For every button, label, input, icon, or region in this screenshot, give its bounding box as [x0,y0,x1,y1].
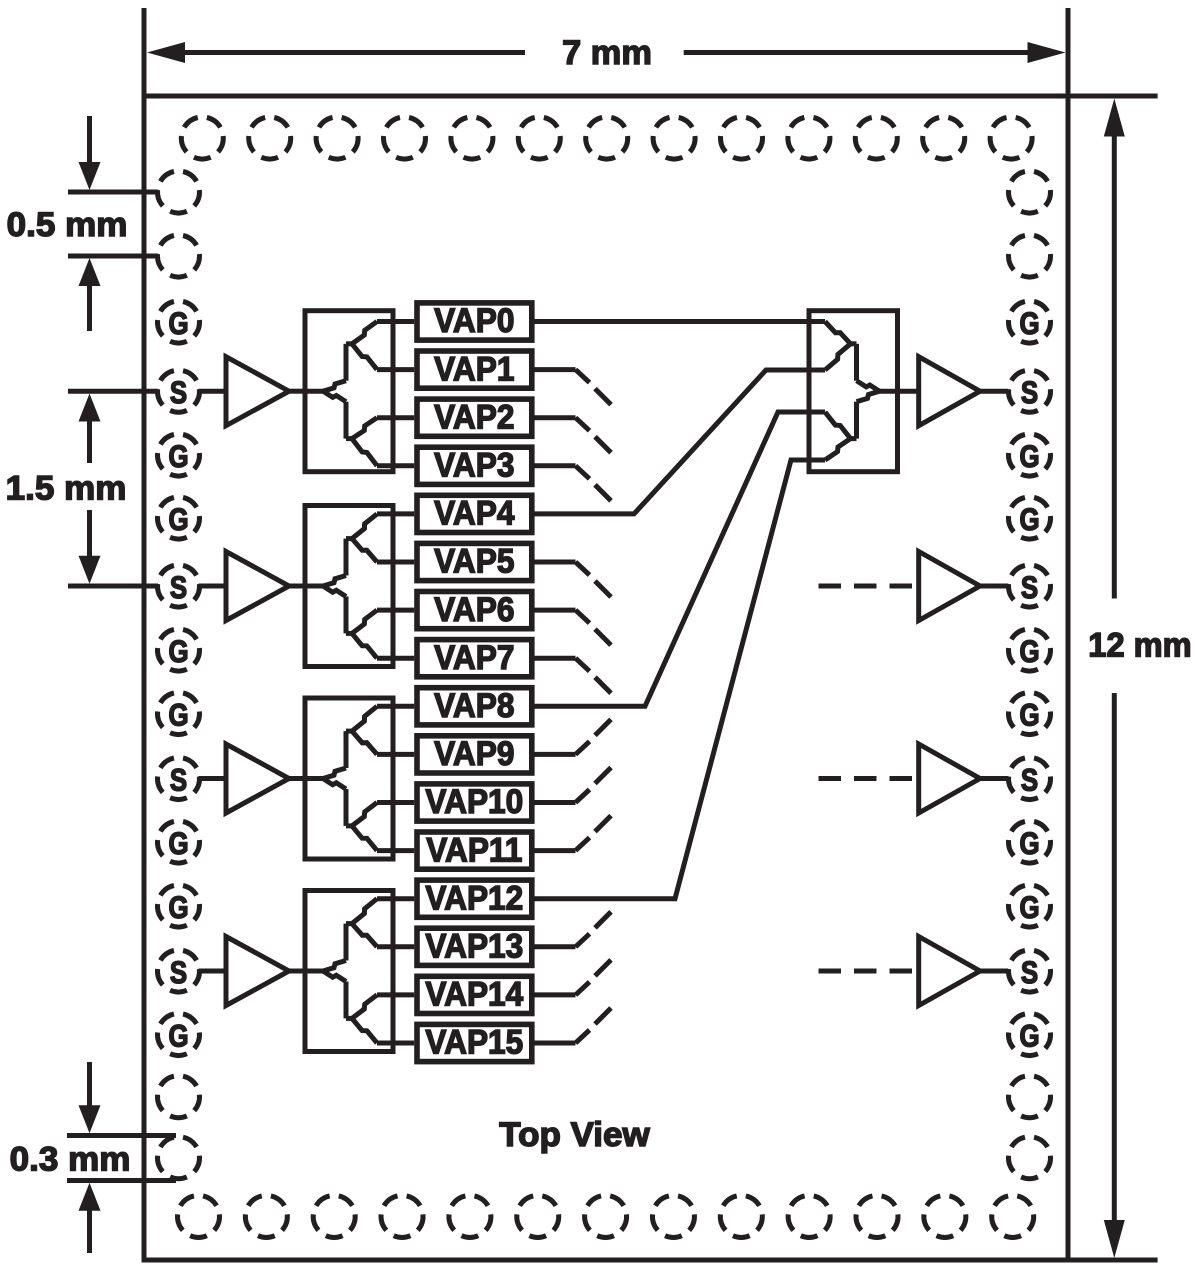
dashed input wire right amp 4 [819,969,919,974]
pad right column 15 [1009,1076,1051,1118]
wire amp A1 to splitter [289,389,305,394]
pad S left column 4 [158,371,200,413]
pad bottom row 10 [788,1196,830,1238]
wire S3 pad to amp [199,776,227,781]
pad G right column 8 [1009,630,1051,672]
VAP2 attenuator box [417,397,532,436]
dashed input wire right amp 3 [819,776,919,781]
switch stub VAP13 (open output) [535,912,612,947]
0.3mm tick lower [67,1178,176,1183]
pad S right column 10 [1009,758,1051,800]
svg-text:VAP3: VAP3 [434,445,514,483]
VAP11 attenuator box [417,830,532,869]
pad bottom row 4 [381,1196,423,1238]
svg-text:VAP15: VAP15 [425,1023,523,1061]
switch stub VAP2 (open output) [535,418,612,453]
label Top View [499,1116,650,1153]
pad top row 1 [181,118,223,160]
pad G left column 14 [158,1014,200,1056]
pad bottom row 8 [652,1196,694,1238]
switch stub VAP14 (open output) [535,960,612,995]
switch stub VAP15 (open output) [535,1008,612,1043]
extension line bottom (for 12mm dim) [1068,1258,1158,1263]
0.3mm arrow lower [87,1208,92,1253]
extension line left (top-left corner, for 7mm dim) [142,8,147,96]
svg-text:VAP7: VAP7 [434,638,514,676]
svg-text:G: G [1019,1019,1039,1054]
pad top row 3 [316,118,358,160]
combiner 4:1 block [809,311,898,472]
pad G left column 11 [158,822,200,864]
splitter 1:4 block 1 [305,311,414,472]
label 12 mm [1088,627,1191,665]
wire VAP12 to combiner input 4 [535,460,826,899]
0.3mm tick upper [67,1133,176,1138]
label 7 mm [562,34,652,72]
svg-text:G: G [168,826,188,861]
svg-text:VAP6: VAP6 [434,590,514,628]
amplifier left A1 [226,357,289,426]
pad top row 10 [788,118,830,160]
label 0.3 mm [10,1141,131,1178]
svg-text:S: S [1021,570,1038,605]
svg-text:G: G [1019,698,1039,733]
pad G right column 6 [1009,498,1051,540]
switch stub VAP7 (open output) [535,658,612,693]
svg-text:Top View: Top View [499,1116,650,1153]
amplifier right A4 [919,937,980,1006]
pad bottom row 7 [585,1196,627,1238]
wire VAP0 to combiner input 1 [535,319,826,324]
pad top row 2 [249,118,291,160]
svg-text:G: G [168,634,188,669]
pad G left column 12 [158,886,200,928]
splitter 1:4 block 3 [305,698,414,859]
12mm dimension line lower segment [1112,693,1117,1222]
VAP10 attenuator box [417,782,532,821]
pad right column 1 [1009,172,1051,214]
pad bottom row 12 [924,1196,966,1238]
pad bottom row 2 [245,1196,287,1238]
svg-text:S: S [1021,376,1038,411]
svg-text:G: G [1019,439,1039,474]
pad bottom row 1 [178,1196,220,1238]
VAP15 attenuator box [417,1023,532,1062]
wire right amp 1 to S pad [980,389,1008,394]
0.5mm tick lower [68,254,158,259]
svg-text:1.5 mm: 1.5 mm [6,470,127,507]
svg-text:G: G [168,698,188,733]
pad top row 6 [518,118,560,160]
VAP0 attenuator box [417,301,532,340]
package outline (7mm x 12mm body) [144,96,1068,1260]
pad G right column 11 [1009,822,1051,864]
amplifier left A3 [226,744,289,813]
pad top row 12 [923,118,965,160]
amplifier right A3 [919,744,980,813]
switch stub VAP3 (open output) [535,466,612,501]
svg-text:VAP2: VAP2 [434,397,514,435]
pad top row 13 [990,118,1032,160]
pad G left column 5 [158,435,200,477]
svg-text:VAP11: VAP11 [426,830,522,868]
pad G right column 14 [1009,1014,1051,1056]
switch stub VAP11 (open output) [535,816,612,851]
pad left column 15 [158,1076,200,1118]
pad S right column 7 [1009,566,1051,608]
dashed input wire right amp 2 [819,584,919,589]
wire amp A2 to splitter [289,584,305,589]
amplifier right A2 [919,552,980,621]
0.5mm arrow lower [87,284,92,331]
wire right amp 4 to S pad [980,969,1008,974]
1.5mm tick lower [68,584,158,589]
label 0.5 mm [7,207,128,244]
svg-text:G: G [168,502,188,537]
pad G right column 12 [1009,886,1051,928]
svg-text:7 mm: 7 mm [562,34,652,72]
pad bottom row 5 [449,1196,491,1238]
svg-text:VAP12: VAP12 [425,878,523,916]
svg-text:VAP14: VAP14 [425,975,524,1013]
pad top row 5 [451,118,493,160]
svg-text:VAP10: VAP10 [425,782,523,820]
splitter 1:4 block 2 [305,506,414,667]
pad top row 9 [721,118,763,160]
switch stub VAP6 (open output) [535,610,612,645]
1.5mm arrow lower [87,510,92,558]
pad left column 1 [158,172,200,214]
wire amp A3 to splitter [289,776,305,781]
svg-text:G: G [1019,826,1039,861]
7mm dimension arrowhead left [147,42,185,63]
pad bottom row 9 [720,1196,762,1238]
wire S4 pad to amp [199,969,227,974]
12mm dimension arrowhead down [1104,1220,1125,1258]
switch stub VAP5 (open output) [535,562,612,597]
svg-text:G: G [1019,306,1039,341]
pad S right column 13 [1009,951,1051,993]
switch stub VAP9 (open output) [535,719,612,754]
wire S2 pad to amp [199,584,227,589]
svg-text:S: S [170,763,187,798]
pad G left column 3 [158,302,200,344]
svg-text:VAP1: VAP1 [434,349,514,387]
svg-text:S: S [170,955,187,990]
pad right column 16 [1009,1137,1051,1179]
pad S left column 7 [158,566,200,608]
VAP5 attenuator box [417,542,532,581]
pad S left column 10 [158,758,200,800]
pad G right column 9 [1009,693,1051,735]
1.5mm tick upper [68,389,158,394]
amplifier left A4 [226,937,289,1006]
7mm dimension line right segment [684,50,1028,55]
svg-text:G: G [168,306,188,341]
switch stub VAP1 (open output) [535,370,612,405]
VAP8 attenuator box [417,686,532,725]
pad top row 8 [653,118,695,160]
0.5mm arrow upper [87,116,92,164]
VAP14 attenuator box [417,975,532,1014]
VAP7 attenuator box [417,638,532,677]
wire VAP4 to combiner input 2 [535,370,826,514]
pad bottom row 6 [517,1196,559,1238]
svg-text:G: G [1019,502,1039,537]
pad right column 2 [1009,236,1051,278]
svg-text:S: S [170,376,187,411]
pad top row 11 [855,118,897,160]
svg-text:VAP9: VAP9 [434,734,514,772]
pad G left column 6 [158,498,200,540]
pad S right column 4 [1009,371,1051,413]
pad left column 2 [158,236,200,278]
extension line top (for 12mm dim) [1068,94,1158,99]
svg-text:G: G [168,890,188,925]
VAP1 attenuator box [417,349,532,388]
pad G right column 5 [1009,435,1051,477]
pad bottom row 13 [992,1196,1034,1238]
12mm dimension arrowhead up [1104,99,1125,137]
VAP12 attenuator box [417,878,532,917]
pad G left column 9 [158,693,200,735]
amplifier right A1 [919,357,980,426]
switch stub VAP10 (open output) [535,768,612,803]
wire combiner to right amp 1 [898,389,919,394]
pad top row 7 [586,118,628,160]
svg-text:G: G [1019,634,1039,669]
svg-text:0.5 mm: 0.5 mm [7,207,128,244]
svg-text:VAP4: VAP4 [434,494,515,532]
svg-text:0.3 mm: 0.3 mm [10,1141,131,1178]
pad bottom row 3 [313,1196,355,1238]
VAP9 attenuator box [417,734,532,773]
7mm dimension arrowhead right [1028,42,1066,63]
svg-text:VAP0: VAP0 [434,301,514,339]
pad bottom row 11 [856,1196,898,1238]
svg-text:S: S [1021,955,1038,990]
wire S1 pad to amp [199,389,227,394]
svg-text:S: S [1021,763,1038,798]
extension line right (top-right corner, for 7mm dim) [1066,8,1071,96]
svg-text:VAP13: VAP13 [425,926,523,964]
svg-text:G: G [1019,890,1039,925]
svg-text:12 mm: 12 mm [1088,627,1191,665]
VAP13 attenuator box [417,926,532,965]
0.5mm tick upper [68,190,158,195]
pad G left column 8 [158,630,200,672]
svg-text:S: S [170,570,187,605]
svg-text:G: G [168,1019,188,1054]
pad S left column 13 [158,951,200,993]
VAP4 attenuator box [417,494,532,533]
VAP3 attenuator box [417,445,532,484]
pad G right column 3 [1009,302,1051,344]
wire right amp 2 to S pad [980,584,1008,589]
svg-text:VAP8: VAP8 [434,686,514,724]
wire VAP8 to combiner input 3 [535,412,826,706]
svg-text:G: G [168,439,188,474]
splitter 1:4 block 4 [305,891,414,1052]
VAP6 attenuator box [417,590,532,629]
0.3mm arrow upper [87,1062,92,1108]
12mm dimension line upper segment [1112,134,1117,599]
7mm dimension line left segment [185,50,525,55]
pad left column 16 [158,1137,200,1179]
amplifier left A2 [226,552,289,621]
svg-text:VAP5: VAP5 [434,542,514,580]
label 1.5 mm [6,470,127,507]
wire right amp 3 to S pad [980,776,1008,781]
1.5mm arrow upper [87,421,92,463]
pad top row 4 [384,118,426,160]
wire amp A4 to splitter [289,969,305,974]
